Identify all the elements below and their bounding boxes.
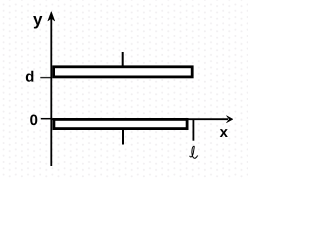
y-axis arrowhead: [48, 12, 55, 22]
axis label x: [220, 129, 228, 137]
tick at x=l: [192, 120, 194, 141]
upper plate: [54, 67, 193, 77]
axis label y: [33, 16, 42, 29]
lower plate center tick: [122, 129, 124, 145]
y-axis: [50, 15, 52, 166]
x-axis arrowhead: [226, 116, 233, 123]
label d: [26, 71, 34, 82]
upper plate center tick: [122, 52, 124, 67]
tick at x=0: [41, 118, 52, 120]
x-axis: [51, 118, 228, 120]
label 0: [30, 115, 37, 126]
label l (script ell): [190, 146, 198, 158]
lower plate: [54, 119, 187, 128]
tick at y=d: [40, 77, 51, 79]
